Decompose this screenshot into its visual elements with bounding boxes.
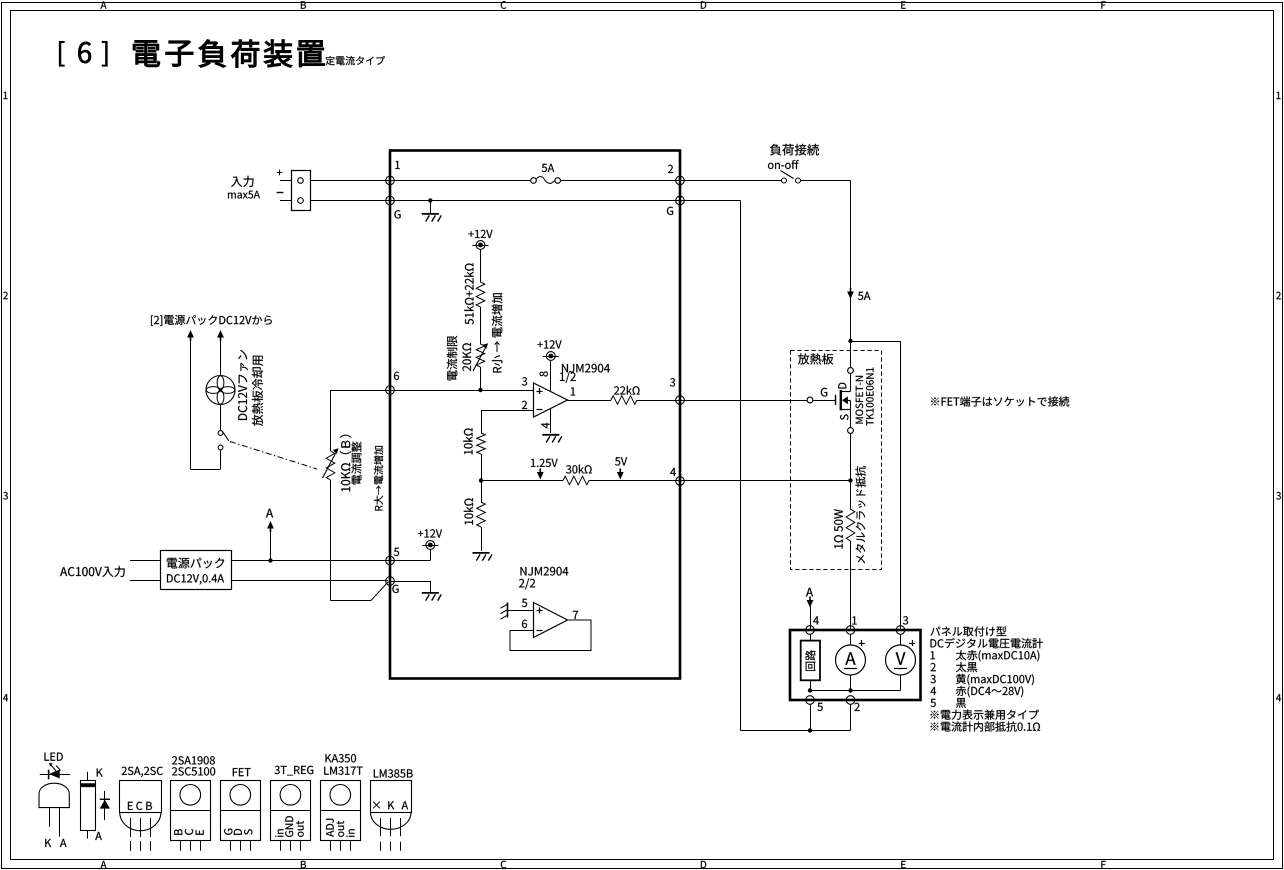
meter terminal 4 [806,626,815,635]
label 放熱板 [798,353,833,364]
wire G rail down right [680,200,741,202]
pin 3 label [522,377,527,385]
plus sign input [277,172,283,174]
ground symbol divider [473,552,490,554]
fuse F1 5A [531,178,537,184]
wire gate to mosfet [813,400,836,402]
LED diode symbol [40,774,70,776]
current arrow 5A [847,292,854,300]
label NJM2904 [562,364,610,373]
power +12V symbol pack [426,541,435,550]
label 3T_REG [275,766,314,776]
op-amp U2 NJM2904 2/2 [534,603,568,638]
mechanical link dash-dot [230,442,317,470]
label 22kΩ [614,386,640,395]
wire switch to bottom [220,450,222,469]
label 電流制限 [447,336,458,381]
box terminal 3 [676,396,685,405]
wire pack to pin5 [231,560,390,562]
LM385B legs [380,818,382,836]
label S source [840,414,848,420]
label +12V top [468,230,492,238]
label 10KΩ(B) [340,435,352,492]
label 負荷接続 [770,144,819,156]
node drain branch [848,339,852,343]
label 20KΩ [462,343,471,371]
arrow net A left [267,521,274,529]
ground symbol top [422,213,439,215]
wire opamp output [568,400,612,402]
drain socket pin [848,368,854,374]
arrow net A meter [807,600,814,608]
wire fan bottom U [191,469,221,471]
arrow 1.25V [537,472,544,480]
wire to shunt resistor [850,481,852,510]
pin 4 label [541,423,549,429]
wire voltmeter down [900,675,902,691]
feedback wire U2 [510,620,591,651]
shunt module box [801,641,820,681]
wire pot top [330,390,332,451]
wire gate from box pin3 [680,400,807,402]
op-amp U1 NJM2904 1/2 [534,383,568,417]
box terminal 5 [386,556,395,565]
meter box [790,630,921,700]
label 入力 max5A [231,176,254,187]
label 5A current [858,292,870,300]
meter note text block [931,626,1007,636]
ground symbol pack [422,592,439,594]
TO-220 package 2SA1908/2SC5100 [171,781,211,841]
label 10kΩ lower [464,498,473,524]
label メタルクラッド抵抗 [855,466,865,564]
pin 2 label [522,401,527,409]
box terminal 6 [386,386,395,395]
pin 4 label [670,468,676,476]
label +12V pack [418,529,442,537]
box terminal 1 [386,176,395,185]
wire shunt down [810,680,812,690]
node meter common mid [848,688,852,692]
label 1/2 [560,372,576,383]
label 2 [854,703,859,711]
label LED [45,753,63,761]
wire pin2 to switch [680,180,782,182]
potentiometer VR2 10KΩ(B) [326,451,335,480]
TO-220 package 3T_REG [271,781,311,841]
pin 7 label [573,611,578,619]
pin G label top-left [394,210,400,218]
pin G label top-right [667,207,673,215]
wire fan supply right [217,330,224,338]
meter terminal 3 [896,626,905,635]
junction ground tap [428,198,432,202]
node bottom [808,728,812,732]
wire 22k to pin3 [637,400,680,402]
plus ammeter [859,643,865,645]
power pack box [161,551,232,590]
wire node to R3 [481,481,483,503]
label 30kΩ [566,465,592,474]
label MOSFET-N [856,376,864,424]
wire to ground [430,201,432,214]
wire source down [850,433,852,480]
gate socket pin [807,397,813,403]
VR1 arrow [473,349,485,372]
plus voltmeter [909,643,915,645]
VR2 arrow [323,454,336,479]
label 5V [615,457,627,465]
label 電源パック [167,558,225,569]
diode D1 package [97,769,103,777]
pin 6 label [522,620,527,628]
input terminal block [292,171,311,211]
TO-92 package 2SA,2SC [120,781,162,813]
label 3 [903,616,908,624]
wire pack to pinG [231,580,388,582]
wire pin5 [508,610,534,612]
wire pin1 to fuse [391,180,531,182]
meter terminal 1 [846,626,855,635]
wire input - to box pinG [310,200,390,202]
pin G label bottom [392,585,398,593]
wire term4 to shunt [810,634,812,640]
wire input + to box pin1 [310,180,390,182]
title [6] 電子負荷装置 [59,41,64,66]
box terminal 2 [676,176,685,185]
wire term3 to voltmeter [900,634,902,645]
source socket pin [848,428,854,434]
label 回路 rotated [805,650,815,671]
label on-off [768,160,799,169]
diode symbol small [104,791,106,820]
TO-220 package FET [221,781,261,841]
label LM385B [374,769,413,777]
wire pin5 to +12V [390,560,430,562]
fuse value 5A [542,164,554,172]
wire fuse to pin2 [561,180,681,182]
node ref [478,388,482,392]
resistor R1 51kΩ+22kΩ [476,282,485,307]
power +12V symbol op1 [546,352,555,361]
resistor R4 30kΩ [563,476,589,485]
label 1 [852,616,856,624]
box terminal G bottom [386,577,395,586]
label 10kΩ upper [463,428,472,454]
wire AC input bottom [130,580,160,582]
label 4 [813,616,819,624]
label 電流調整 [351,442,361,485]
pin 5 label [394,548,399,556]
voltmeter V [886,645,916,675]
labels 2SA1908 2SC5100 [172,756,215,764]
node A tap [268,558,272,562]
wire fan supply left [187,330,194,338]
label +12V op1 [537,340,561,348]
subtitle 定電流タイプ [326,56,385,65]
label FET [233,768,251,776]
label G gate [821,388,827,397]
meter terminal 2 [846,696,855,705]
label 5 [817,703,822,711]
main unit box [390,151,680,679]
TO-220 package KA350/LM317T [321,781,361,841]
switch SW2 fan [218,431,223,436]
net label A meter [806,588,813,597]
node meter common left [808,688,812,692]
box terminal G left [386,196,395,205]
no-connect symbol pin5 [507,603,509,618]
ground symbol op1 [542,434,559,436]
label D drain [838,383,846,389]
fan M1 DC12V [206,376,235,405]
label 51kΩ+22kΩ [464,263,473,324]
node divider [479,478,483,482]
wire inverting input [481,410,534,412]
label NJM2904 2/2 [521,567,569,576]
node sense [848,478,852,482]
label A [60,839,67,847]
LED package dome [39,783,69,807]
wire R2 to node [481,454,483,481]
wire sense to pin4 [680,480,851,482]
power +12V symbol top [476,241,485,250]
wire pot bottom [330,480,332,601]
wire shunt to ammeter [850,541,852,630]
label DC12V,0.4A [167,574,224,584]
note FET socket [931,396,1069,406]
resistor R6 22kΩ [611,396,637,405]
labels KA350 LM317T [326,754,357,762]
wire term2 down [850,704,852,730]
wire divider to pin4 (1.25V/5V line) [481,480,563,482]
pin 6 label [394,372,399,380]
wire VR1 to node [480,367,482,390]
pin 5 label [522,599,527,607]
pin 2 label [668,165,673,173]
heatsink dashed box 放熱板 [791,351,882,570]
wire pin6 [510,630,534,632]
label DC12Vファン [238,350,248,420]
resistor R2 10kΩ [477,433,486,454]
resistor R3 10kΩ [477,502,486,527]
wire down to MOSFET drain [850,181,852,342]
wire R3 to ground [481,527,483,551]
wire AC input top [130,560,160,562]
LED legs [49,808,51,827]
label 1.25V [531,459,558,467]
transistor Q1 MOSFET-N TK100E06N1 [835,395,837,405]
pin 8 label [540,371,548,376]
wire switch to corner [801,180,851,182]
ammeter A [836,645,866,675]
label 1Ω 50W [834,509,843,548]
input connector stubs [280,180,291,182]
wire term5 down [810,704,812,730]
wire branch to voltmeter [851,341,901,343]
label K [45,839,51,847]
variable resistor VR1 20KΩ [476,344,485,367]
wire +12V to R1 [480,249,482,282]
wire pinG rail [391,200,679,202]
box terminal 4 [676,477,685,486]
wire into heatsink [850,341,852,368]
box terminal G right [676,196,685,205]
wire R1 to VR1 [480,307,482,344]
minus sign input [277,192,284,194]
label AC100V入力 [60,566,125,577]
net label A left [266,509,273,518]
wire pin4 to ground [550,409,552,434]
resistor R5 1ohm 50W [846,509,855,541]
pin 1 label [395,161,399,169]
wire pin6 to opamp [391,390,534,392]
TO-92 legs [130,818,132,837]
meter common wire [810,690,901,692]
wire term1 to ammeter [850,634,852,645]
label [2]電源パックDC12Vから [151,315,272,326]
pin 3 label [670,378,675,386]
label 2SA,2SC [122,767,163,777]
wire pinG to ground [390,581,430,583]
label R小→電流増加 [492,293,503,372]
pin 1 label [571,387,575,395]
wire fan to switch [220,405,222,431]
meter terminal 5 [806,696,815,705]
switch SW1 load on-off [782,178,787,183]
wire pin8 [550,360,552,392]
arrow 5V [617,472,624,480]
label TK100E06N1 [866,368,874,426]
wire ammeter down [850,675,852,691]
label R大→電流増加 [374,446,383,511]
label 放熱板冷却用 [252,356,263,426]
TO-92 package LM385B [371,781,412,813]
